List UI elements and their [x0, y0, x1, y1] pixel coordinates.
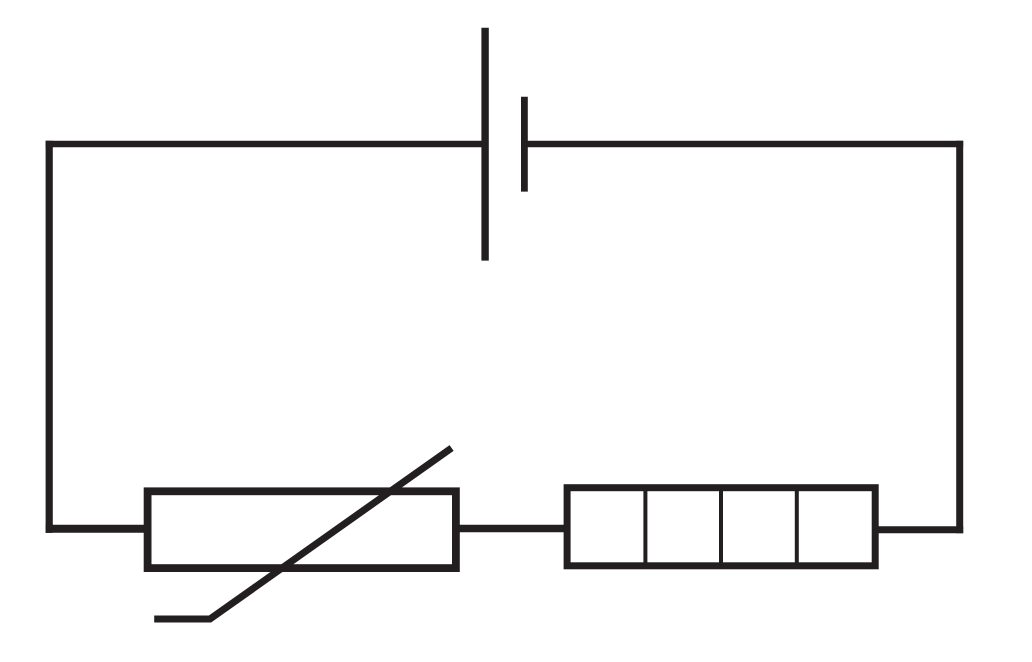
wire bottom-right (heater to right corner)	[875, 526, 963, 533]
wire right side (vertical)	[956, 141, 963, 534]
thermistor body rectangle	[148, 491, 456, 568]
heater divider 3	[795, 488, 799, 566]
battery cell: short negative plate	[521, 97, 528, 192]
wire top-left (battery to left corner)	[46, 141, 486, 148]
heater element rectangle	[567, 488, 875, 566]
wire left side (vertical)	[46, 141, 53, 533]
wire top-right (battery to right corner)	[524, 141, 963, 148]
wire bottom-left (left corner to thermistor)	[46, 525, 150, 533]
heater divider 1	[643, 488, 647, 566]
battery cell: long positive plate	[481, 28, 488, 261]
wire bottom-middle (thermistor to heater)	[455, 525, 568, 533]
heater divider 2	[719, 488, 723, 566]
thermistor diagonal stroke with bent foot	[154, 448, 451, 619]
